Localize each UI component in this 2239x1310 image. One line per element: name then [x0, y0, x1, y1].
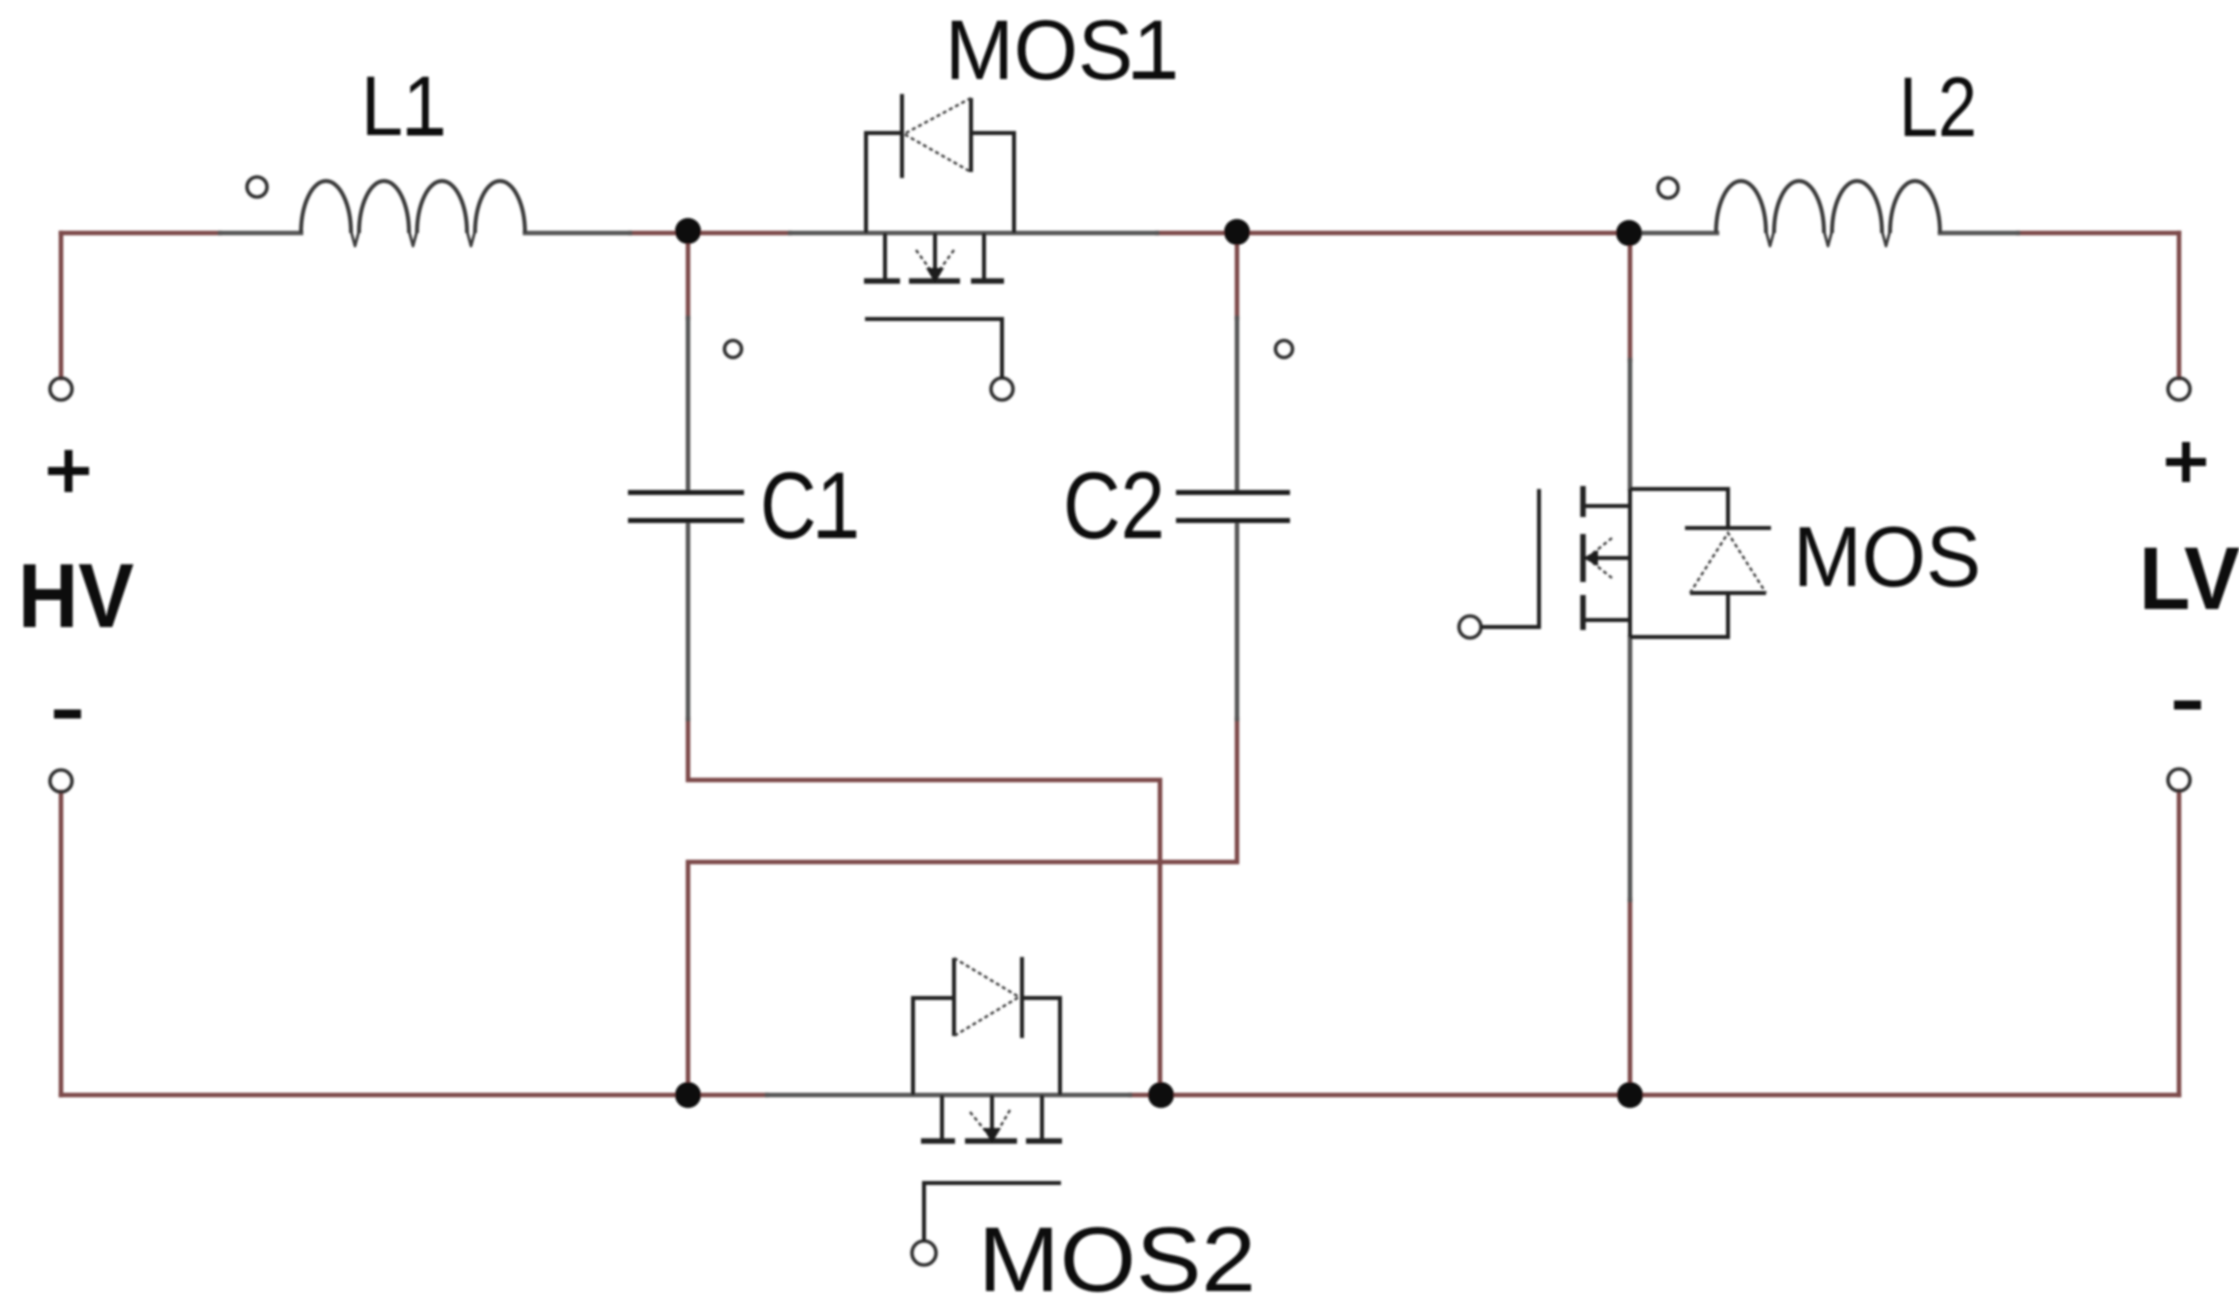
svg-text:LV: LV: [2139, 528, 2239, 628]
svg-text:MOS: MOS: [1793, 510, 1981, 605]
svg-text:MOS1: MOS1: [945, 3, 1179, 97]
svg-text:L1: L1: [361, 59, 445, 153]
svg-text:L2: L2: [1899, 60, 1977, 154]
svg-text:HV: HV: [18, 546, 134, 647]
svg-text:C2: C2: [1063, 453, 1165, 559]
svg-text:MOS2: MOS2: [978, 1209, 1256, 1310]
svg-text:C1: C1: [760, 453, 860, 559]
